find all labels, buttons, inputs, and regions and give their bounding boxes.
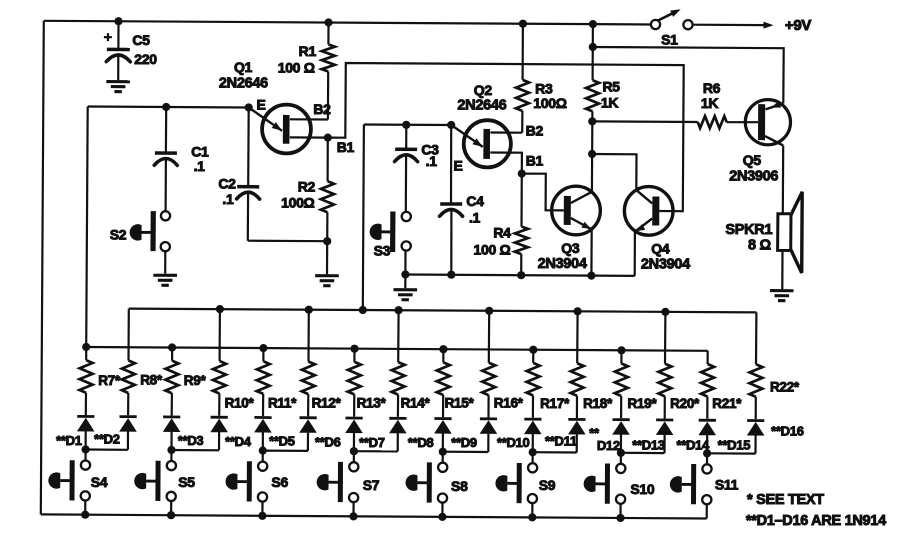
ground for S2 (164, 251, 166, 273)
transistor Q1 2N2646 (262, 105, 311, 154)
diode D14 (656, 419, 673, 422)
diode D4 (211, 416, 228, 419)
node E2 / C3 (402, 121, 410, 129)
svg-text:C2: C2 (218, 176, 236, 192)
svg-text:C5: C5 (132, 32, 150, 48)
svg-text:S4: S4 (91, 474, 108, 490)
switch S2 (161, 211, 170, 220)
resistor R1 (327, 23, 329, 45)
node lower bus / R19 (617, 346, 625, 354)
node E1 / C2 (245, 103, 253, 111)
resistor R22 (755, 312, 758, 364)
node R5 / R6 (588, 117, 596, 125)
svg-text:**D1–D16 ARE 1N914: **D1–D16 ARE 1N914 (746, 513, 886, 529)
node lower bus / R15 (439, 345, 447, 353)
resistor R17 (532, 350, 534, 363)
node upper bus / R20 (661, 308, 669, 316)
wire bottom switch bus (41, 514, 707, 518)
switch S3 (402, 212, 411, 221)
node upper bus / R18 (574, 307, 582, 315)
node R2 / C2 / ground (323, 237, 331, 245)
svg-text:S7: S7 (363, 477, 380, 493)
svg-text:B2: B2 (526, 123, 544, 139)
resistor R12 (307, 310, 309, 362)
node upper bus / R10 (216, 305, 224, 313)
collector lead Q5 (765, 136, 783, 145)
svg-text:R15*: R15* (445, 396, 475, 411)
svg-text:E: E (256, 96, 265, 112)
svg-text:+9V: +9V (785, 17, 812, 34)
svg-text:100 Ω: 100 Ω (474, 242, 511, 258)
speaker SPKR1 (778, 192, 803, 273)
node upper bus / Q2 E feed (359, 306, 367, 314)
node D15 pair (703, 449, 711, 457)
svg-text:**D10: **D10 (497, 435, 530, 450)
wire R5 node to Q5 emitter (593, 47, 784, 104)
svg-text:**D1: **D1 (56, 433, 82, 448)
diode D5 (254, 416, 271, 419)
svg-text:R8*: R8* (140, 373, 163, 388)
diode D8 (389, 417, 406, 420)
capacitor C3 (405, 125, 407, 148)
svg-text:1K: 1K (601, 94, 618, 110)
diode D16 (747, 419, 764, 422)
wire left rail (41, 21, 44, 515)
transistor Q2 2N2646 (464, 120, 511, 167)
node bottom bus / S9 (528, 513, 536, 521)
svg-text:R12*: R12* (312, 396, 342, 411)
svg-text:Q5: Q5 (743, 152, 762, 168)
node bottom bus / S10 (616, 514, 624, 522)
svg-text:.1: .1 (469, 210, 481, 226)
node D9 pair (439, 448, 447, 456)
svg-text:R19*: R19* (627, 396, 657, 411)
svg-text:R7*: R7* (98, 373, 121, 388)
svg-text:B1: B1 (337, 139, 355, 155)
resistor R5 (591, 24, 594, 80)
switch S4 (84, 450, 86, 461)
capacitor C1 (165, 107, 168, 152)
base lead Q3 (522, 174, 564, 211)
diode D1 (77, 415, 94, 418)
svg-text:R9*: R9* (184, 373, 207, 388)
node C4 / common (447, 271, 455, 279)
ground for C5 (106, 80, 130, 83)
svg-text:Q4: Q4 (651, 241, 670, 257)
node R5 / wire to Q5 emitter (589, 43, 597, 51)
resistor R21 (706, 351, 708, 364)
node bottom bus / S8 (438, 513, 446, 521)
node B1 Q1 (324, 134, 332, 142)
svg-text:100Ω: 100Ω (533, 95, 566, 111)
resistor R13 (353, 349, 355, 362)
wire common S3/C4/R4/Q3/Q4 emitters (405, 275, 634, 276)
diode D9 (434, 417, 451, 420)
node E2 / C4 (447, 121, 455, 129)
node lower bus / R13 (350, 345, 358, 353)
svg-text:R17*: R17* (540, 396, 570, 411)
switch S8 (442, 452, 444, 463)
svg-text:S5: S5 (178, 474, 195, 490)
svg-text:**D13: **D13 (632, 438, 665, 453)
resistor R14 (397, 310, 400, 362)
svg-text:R11*: R11* (268, 396, 297, 411)
node D5 pair (259, 447, 267, 455)
svg-text:B2: B2 (313, 101, 331, 117)
ground for R2 (326, 241, 328, 274)
node upper bus / R16 (485, 307, 493, 315)
wire Q2 emitter node (364, 123, 451, 126)
base-two lead Q2 B2 (491, 131, 523, 133)
resistor R11 (262, 348, 264, 361)
resistor R8 (127, 309, 130, 361)
wire S3 to common (404, 251, 406, 275)
wire upper key bus (129, 309, 757, 313)
base-one lead Q1 B1 (290, 136, 328, 138)
resistor R6 (592, 120, 697, 123)
collector lead Q3 (571, 192, 592, 203)
emitter lead Q1 (249, 108, 282, 131)
node top rail / R3 (519, 20, 527, 28)
svg-text:R16*: R16* (494, 396, 524, 411)
node Q3 emitter / common (587, 272, 595, 280)
node B1 Q2 (518, 170, 526, 178)
svg-text:**D8: **D8 (408, 435, 434, 450)
svg-text:R14*: R14* (401, 396, 431, 411)
node top rail / R1 (324, 18, 332, 26)
svg-text:Q1: Q1 (234, 59, 253, 75)
node bottom bus / S6 (258, 512, 266, 520)
node Q3/Q4 collectors (588, 150, 596, 158)
resistor R7 (85, 347, 87, 360)
diode D3 (163, 416, 180, 419)
emitter lead Q2 (451, 125, 483, 147)
node top rail / C5 (114, 17, 122, 25)
node lower bus / R17 (529, 346, 537, 354)
svg-text:S8: S8 (451, 478, 468, 494)
diode D15 (699, 419, 716, 422)
svg-text:C4: C4 (466, 193, 484, 209)
node upper bus / R14 (395, 306, 403, 314)
svg-text:**D9: **D9 (451, 435, 477, 450)
node S3 / ground (401, 270, 409, 278)
node lower bus / R9 (168, 343, 176, 351)
transistor Q5 2N3906 (745, 100, 790, 145)
collector lead Q4 (636, 190, 652, 203)
svg-text:B1: B1 (526, 153, 544, 169)
switch S11 (706, 453, 708, 464)
resistor R3 (521, 24, 524, 80)
svg-text:**D16: **D16 (771, 423, 804, 438)
node lower bus / R7 (82, 343, 90, 351)
svg-text:220: 220 (134, 51, 157, 67)
wire D5/D6 junction (263, 450, 308, 452)
emitter lead Q4 (635, 219, 652, 232)
resistor R15 (442, 349, 444, 362)
diode D10 (480, 417, 497, 420)
capacitor C2 (247, 108, 250, 186)
svg-text:S3: S3 (374, 243, 391, 259)
wire D3/D4 junction (172, 449, 220, 451)
svg-text:Q3: Q3 (561, 240, 580, 256)
wire C2 to R2 bottom (248, 240, 327, 243)
svg-text:100Ω: 100Ω (281, 195, 314, 211)
svg-text:**D14: **D14 (676, 438, 710, 453)
capacitor C5 (117, 21, 119, 48)
diode D11 (524, 418, 541, 421)
transistor Q3 2N3904 (552, 186, 601, 235)
svg-text:**D7: **D7 (359, 435, 385, 450)
wire speaker to ground (781, 251, 783, 290)
wire Q1 emitter node (88, 107, 249, 108)
wire D9/D10 junction (443, 451, 489, 453)
svg-text:**D11: **D11 (545, 434, 577, 449)
diode D12 (568, 418, 585, 421)
svg-text:.1: .1 (194, 158, 206, 174)
emitter lead Q5 (766, 104, 784, 110)
switch S9 (531, 452, 533, 463)
switch S1 (651, 20, 660, 29)
svg-text:**D6: **D6 (315, 434, 341, 449)
svg-text:2N3904: 2N3904 (538, 256, 587, 272)
svg-text:**D3: **D3 (178, 433, 204, 448)
svg-text:.1: .1 (426, 153, 438, 169)
node D3 pair (167, 446, 175, 454)
node top rail / R5 (589, 20, 597, 28)
resistor R10 (219, 309, 221, 361)
svg-text:S6: S6 (271, 474, 288, 490)
wire D7/D8 junction (354, 450, 398, 452)
svg-text:**D5: **D5 (269, 434, 295, 449)
svg-text:.1: .1 (222, 191, 234, 207)
wire top supply rail (44, 21, 651, 25)
wire to +9V (693, 24, 770, 27)
node bottom bus / S7 (349, 512, 357, 520)
svg-text:R2: R2 (298, 178, 316, 194)
node D1 pair (82, 445, 90, 453)
diode D2 (120, 415, 137, 418)
svg-text:S11: S11 (715, 477, 739, 493)
svg-text:R4: R4 (493, 225, 511, 241)
svg-text:R22*: R22* (770, 379, 800, 394)
switch S5 (170, 450, 172, 461)
node bottom bus / S5 (167, 511, 175, 519)
node bottom bus / S4 (81, 511, 89, 519)
diode D7 (346, 417, 363, 420)
resistor R4 (520, 174, 522, 227)
resistor R9 (171, 348, 173, 361)
wire Q1 E node down to lower key bus (86, 107, 88, 347)
svg-text:2N3904: 2N3904 (641, 257, 690, 273)
svg-text:Q2: Q2 (474, 82, 493, 98)
switch S10 (620, 453, 622, 464)
resistor R19 (620, 350, 622, 363)
svg-text:R18*: R18* (583, 396, 613, 411)
svg-text:R3: R3 (535, 81, 553, 97)
wire D13/D14 junction (621, 452, 665, 455)
switch S7 (353, 451, 355, 462)
ground for S3 node (404, 275, 406, 289)
node lower bus / R11 (259, 344, 267, 352)
svg-text:2N3906: 2N3906 (729, 168, 778, 184)
resistor R18 (576, 311, 579, 363)
svg-text:* SEE TEXT: * SEE TEXT (747, 492, 824, 508)
node D7 pair (350, 447, 358, 455)
resistor R20 (664, 312, 667, 364)
base-one lead Q2 B1 (490, 153, 522, 174)
svg-text:2N2646: 2N2646 (219, 76, 268, 92)
svg-text:**D4: **D4 (225, 434, 252, 449)
node E1 / C1 (162, 103, 170, 111)
capacitor C4 (450, 125, 452, 203)
svg-text:**D2: **D2 (94, 432, 120, 447)
svg-text:S2: S2 (110, 227, 127, 243)
svg-text:R21*: R21* (712, 396, 742, 411)
node upper bus / R12 (305, 306, 313, 314)
wire D11/D12 junction (533, 451, 577, 453)
node D13 pair (617, 449, 625, 457)
node D11 pair (529, 448, 537, 456)
svg-text:S9: S9 (539, 477, 556, 493)
resistor R16 (488, 311, 491, 363)
svg-text:**D15: **D15 (718, 438, 751, 453)
svg-text:R10*: R10* (225, 396, 255, 411)
node R4 / common (517, 271, 525, 279)
svg-text:S10: S10 (630, 481, 655, 497)
svg-text:R5: R5 (602, 79, 620, 95)
emitter lead Q3 (571, 218, 592, 229)
svg-text:S1: S1 (661, 31, 678, 47)
svg-text:100 Ω: 100 Ω (278, 60, 315, 76)
ground for speaker (770, 289, 794, 292)
svg-text:8 Ω: 8 Ω (748, 237, 771, 253)
wire Q4 collector tie (592, 154, 636, 190)
base lead Q4 from Q1 B1 (328, 63, 684, 211)
svg-text:2N2646: 2N2646 (457, 98, 506, 114)
transistor Q4 2N3904 (624, 187, 673, 236)
resistor R2 (327, 138, 329, 182)
svg-text:R1: R1 (299, 43, 317, 59)
svg-text:SPKR1: SPKR1 (725, 222, 772, 238)
svg-text:R6: R6 (703, 80, 721, 96)
svg-text:E: E (453, 158, 462, 174)
wire Q2 E node down to upper key bus (363, 125, 364, 311)
svg-text:R13*: R13* (357, 396, 387, 411)
switch S6 (262, 451, 264, 462)
wire lower key bus (86, 347, 708, 351)
svg-text:R20*: R20* (670, 396, 700, 411)
diode D13 (613, 418, 630, 421)
diode D6 (300, 416, 317, 419)
wire D1/D2 junction (86, 448, 128, 450)
svg-text:D12: D12 (597, 438, 620, 453)
wire D15/D16 junction (707, 452, 755, 455)
svg-text:1K: 1K (701, 95, 718, 111)
base-two lead Q1 B2 (290, 118, 328, 120)
